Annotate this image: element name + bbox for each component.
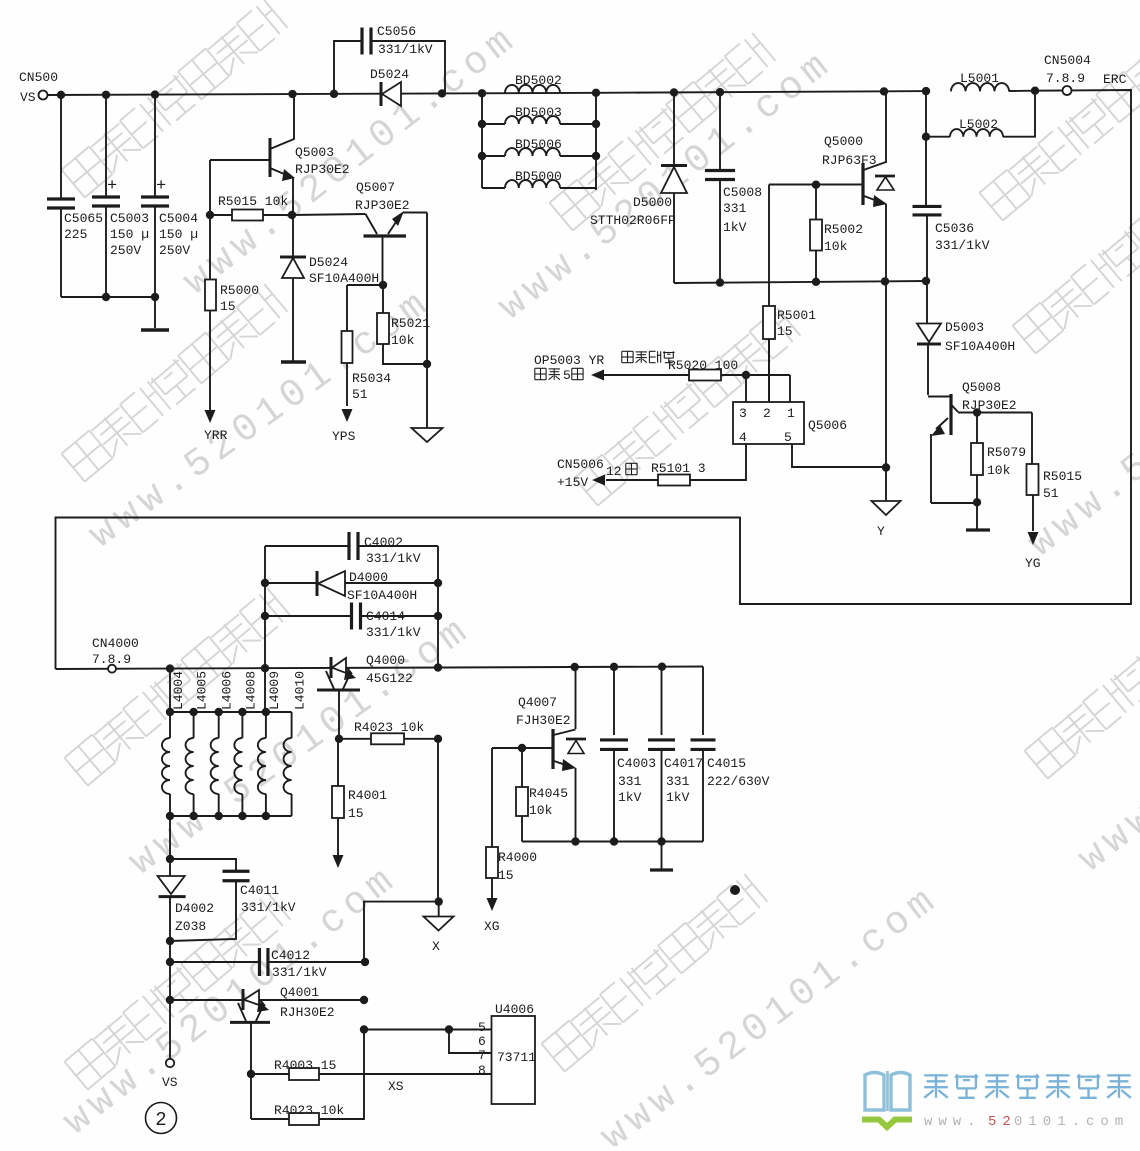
- svg-text:Q5007: Q5007: [356, 180, 395, 195]
- watermark band 4c: [1013, 156, 1140, 353]
- svg-text:51: 51: [352, 387, 368, 402]
- svg-text:7.8.9: 7.8.9: [1046, 71, 1085, 86]
- capacitor C5003: [92, 95, 149, 297]
- resistor R4023 bottom: [251, 1030, 364, 1125]
- svg-text:5: 5: [784, 430, 792, 445]
- svg-text:331/1kV: 331/1kV: [272, 965, 327, 980]
- svg-text:XS: XS: [388, 1079, 404, 1094]
- svg-text:331/1kV: 331/1kV: [378, 42, 433, 57]
- svg-text:CN4000: CN4000: [92, 636, 139, 651]
- arrow to CN5006: [592, 475, 605, 486]
- svg-text:1kV: 1kV: [723, 220, 747, 235]
- svg-text:R5002: R5002: [824, 222, 863, 237]
- svg-text:BD5006: BD5006: [515, 137, 562, 152]
- svg-text:Q4007: Q4007: [518, 695, 557, 710]
- ground Y: [872, 501, 901, 539]
- svg-text:C5056: C5056: [377, 24, 416, 39]
- wire Q5006 pin3: [745, 375, 747, 402]
- capacitor C5004: [141, 95, 198, 328]
- svg-text:D5024: D5024: [370, 67, 409, 82]
- svg-text:150 µ: 150 µ: [110, 227, 149, 242]
- svg-text:C5036: C5036: [935, 221, 974, 236]
- resistor R5021: [377, 285, 431, 368]
- resistor R4003: [247, 1058, 492, 1094]
- svg-text:L4004: L4004: [171, 671, 186, 710]
- svg-text:VS: VS: [20, 90, 36, 105]
- svg-text:CN5004: CN5004: [1044, 53, 1091, 68]
- wire Q5006 pin5: [792, 444, 886, 467]
- wire coil top bus: [166, 669, 292, 717]
- inductors L4004 L4005 L4006 L4008 L4009 L4010: [162, 671, 308, 816]
- transistor Q4000: [317, 653, 413, 739]
- svg-text:R5020 100: R5020 100: [668, 358, 738, 373]
- wire U4006 pin5: [360, 1025, 492, 1033]
- svg-text:L4008: L4008: [243, 671, 258, 710]
- svg-text:BD5003: BD5003: [515, 105, 562, 120]
- wire C4002 left column: [261, 546, 269, 672]
- inductor BD5000: [482, 169, 596, 188]
- svg-text:45G122: 45G122: [366, 671, 413, 686]
- node CN4000 terminal: [92, 636, 139, 673]
- resistor R5015: [206, 160, 296, 221]
- svg-text:222/630V: 222/630V: [707, 774, 770, 789]
- logo book icon: [862, 1071, 912, 1127]
- resistor R5002: [810, 185, 863, 282]
- svg-text:331/1kV: 331/1kV: [935, 238, 990, 253]
- watermark band 8: [175, 16, 526, 304]
- page number 2: [146, 1103, 177, 1134]
- svg-text:R5034: R5034: [352, 371, 391, 386]
- node CN5004 terminal: [1044, 53, 1127, 95]
- wire VS main bus: [47, 91, 1063, 96]
- watermark band 3: [65, 588, 291, 785]
- svg-text:331: 331: [723, 201, 747, 216]
- svg-text:SF10A400H: SF10A400H: [347, 588, 417, 603]
- svg-text:1kV: 1kV: [666, 790, 690, 805]
- svg-text:6: 6: [478, 1034, 486, 1049]
- resistor R5000: [204, 215, 259, 443]
- svg-text:15: 15: [348, 806, 364, 821]
- svg-text:331/1kV: 331/1kV: [366, 551, 421, 566]
- svg-text:C4014: C4014: [366, 609, 405, 624]
- watermark band 14: [1020, 278, 1140, 566]
- transistor Q4001: [166, 962, 368, 1074]
- ic U4006: [478, 1002, 536, 1104]
- svg-text:RJH30E2: RJH30E2: [280, 1005, 335, 1020]
- wire capacitor return: [61, 296, 155, 298]
- inductor BD5003: [478, 105, 600, 128]
- svg-text:C5008: C5008: [723, 185, 762, 200]
- svg-text:5: 5: [478, 1020, 486, 1035]
- diode D4000: [265, 570, 438, 603]
- svg-text:XG: XG: [484, 919, 500, 934]
- svg-text:Q4001: Q4001: [280, 985, 319, 1000]
- svg-text:+: +: [156, 177, 166, 196]
- svg-text:R5000: R5000: [220, 283, 259, 298]
- svg-text:CN500: CN500: [19, 70, 58, 85]
- svg-text:8: 8: [478, 1063, 486, 1078]
- svg-text:C4012: C4012: [271, 948, 310, 963]
- svg-text:250V: 250V: [110, 243, 141, 258]
- svg-text:331/1kV: 331/1kV: [241, 900, 296, 915]
- watermark band 10: [81, 280, 440, 558]
- svg-text:R4001: R4001: [348, 788, 387, 803]
- svg-text:10k: 10k: [391, 333, 415, 348]
- resistor R4000: [484, 748, 537, 934]
- svg-text:1: 1: [787, 406, 795, 421]
- svg-text:7: 7: [478, 1048, 486, 1063]
- svg-text:D5024: D5024: [309, 255, 348, 270]
- capacitor C4003: [600, 667, 656, 842]
- wire bottom rail upper section: [674, 277, 930, 287]
- ground under C4017: [650, 842, 673, 871]
- wire Q5006 pin2: [768, 339, 770, 402]
- diode D5003: [917, 281, 1015, 395]
- ground X: [424, 902, 454, 954]
- wire BD bank sides: [482, 93, 596, 190]
- wire gate line: [769, 181, 863, 189]
- watermark band 4: [575, 308, 801, 505]
- svg-text:RJP30E2: RJP30E2: [295, 162, 350, 177]
- svg-text:C4015: C4015: [707, 756, 746, 771]
- wire Q5006 pin1: [789, 375, 791, 402]
- svg-text:R5101 3: R5101 3: [651, 461, 706, 476]
- wire coil bottom bus: [166, 812, 292, 820]
- diode D5024 clamp: [280, 215, 379, 361]
- watermark band 4b: [550, 33, 776, 230]
- svg-text:3: 3: [739, 406, 747, 421]
- svg-text:VS: VS: [162, 1075, 178, 1090]
- svg-text:Q5008: Q5008: [962, 380, 1001, 395]
- capacitor C5008: [705, 88, 762, 282]
- svg-text:5: 5: [563, 368, 571, 383]
- stray dot: [730, 885, 740, 895]
- svg-text:+: +: [107, 177, 117, 196]
- svg-text:Z038: Z038: [175, 919, 206, 934]
- arrow to OP5003: [591, 370, 604, 381]
- transistor Q5000: [822, 87, 895, 281]
- wire cap bottom rail: [522, 837, 703, 845]
- resistor R5020: [604, 358, 790, 381]
- resistor R5101: [606, 444, 746, 486]
- inductor L5002: [922, 91, 1035, 141]
- ground under C5004: [141, 328, 169, 331]
- svg-text:SF10A400H: SF10A400H: [309, 271, 379, 286]
- svg-text:Q5003: Q5003: [295, 145, 334, 160]
- svg-text:L4009: L4009: [267, 671, 282, 710]
- ground under D5024: [281, 360, 306, 363]
- svg-text:1kV: 1kV: [618, 790, 642, 805]
- svg-text:U4006: U4006: [495, 1002, 534, 1017]
- svg-text:250V: 250V: [159, 243, 190, 258]
- capacitor C4014: [265, 603, 438, 641]
- svg-text:C5003: C5003: [110, 211, 149, 226]
- svg-text:RJP30E2: RJP30E2: [962, 398, 1017, 413]
- capacitor C5065: [47, 95, 103, 297]
- wire ERC loop: [56, 90, 1132, 669]
- svg-text:STTH02R06FP: STTH02R06FP: [590, 213, 676, 228]
- svg-text:C4002: C4002: [364, 535, 403, 550]
- svg-text:Y: Y: [877, 524, 885, 539]
- svg-text:R4045: R4045: [529, 786, 568, 801]
- inductor BD5006: [478, 137, 600, 160]
- svg-text:52: 52: [988, 1114, 1017, 1130]
- wire Q5007 collector to ground: [426, 213, 428, 429]
- optocoupler Q5006: [733, 402, 847, 445]
- diode D4002: [158, 859, 214, 941]
- watermark band 15: [1070, 593, 1140, 881]
- svg-text:YPS: YPS: [332, 429, 356, 444]
- capacitor C4011: [166, 859, 296, 945]
- resistor R5034: [332, 281, 391, 444]
- svg-text:R5015: R5015: [1043, 469, 1082, 484]
- inductor BD5002: [478, 73, 600, 97]
- watermark band 12: [55, 856, 406, 1144]
- watermark band 2: [62, 284, 288, 481]
- capacitor C5056: [330, 24, 446, 98]
- svg-text:C4003: C4003: [617, 756, 656, 771]
- resistor R4001: [332, 739, 387, 868]
- resistor R5001: [763, 185, 816, 403]
- svg-text:0101.com: 0101.com: [1014, 1114, 1129, 1130]
- svg-text:C5004: C5004: [159, 211, 198, 226]
- capacitor C5036: [913, 137, 990, 281]
- svg-text:SF10A400H: SF10A400H: [945, 339, 1015, 354]
- svg-text:RJP30E2: RJP30E2: [355, 198, 410, 213]
- svg-text:L4005: L4005: [195, 671, 210, 710]
- svg-text:15: 15: [777, 324, 793, 339]
- node VS bottom terminal: [162, 1000, 178, 1090]
- svg-text:331: 331: [618, 774, 642, 789]
- capacitor C4002: [265, 532, 438, 566]
- inductor L5001: [922, 71, 1039, 95]
- svg-text:YRR: YRR: [204, 428, 228, 443]
- svg-text:R5015 10k: R5015 10k: [218, 194, 288, 209]
- svg-text:YG: YG: [1025, 556, 1041, 571]
- svg-text:4: 4: [739, 430, 747, 445]
- resistor R4023 gate: [335, 720, 442, 744]
- svg-text:Q5000: Q5000: [824, 134, 863, 149]
- svg-text:R5001: R5001: [777, 308, 816, 323]
- resistor R5079: [966, 408, 1026, 530]
- svg-text:CN5006: CN5006: [557, 457, 604, 472]
- svg-text:D4000: D4000: [349, 570, 388, 585]
- svg-text:Q5006: Q5006: [808, 418, 847, 433]
- svg-text:12: 12: [606, 464, 622, 479]
- watermark band 1: [62, 0, 288, 197]
- svg-text:L5002: L5002: [959, 117, 998, 132]
- wire Q5000 emitter to ground Y: [882, 281, 890, 501]
- svg-text:D5003: D5003: [945, 320, 984, 335]
- svg-text:R4000: R4000: [498, 850, 537, 865]
- svg-text:15: 15: [498, 868, 514, 883]
- wire X node: [364, 739, 443, 962]
- watermark band 5: [542, 874, 768, 1071]
- svg-text:2: 2: [155, 1109, 166, 1131]
- svg-text:www.: www.: [924, 1114, 982, 1130]
- svg-text:L4010: L4010: [293, 671, 308, 710]
- svg-text:C4011: C4011: [240, 883, 279, 898]
- svg-text:R4023 10k: R4023 10k: [354, 720, 424, 735]
- capacitor C4012: [166, 941, 369, 980]
- svg-text:R4003 15: R4003 15: [274, 1058, 336, 1073]
- svg-text:RJP63F3: RJP63F3: [822, 153, 877, 168]
- wire coil bank down: [166, 816, 174, 863]
- watermark band 13: [593, 877, 948, 1151]
- svg-text:C5065: C5065: [64, 211, 103, 226]
- svg-text:BD5002: BD5002: [515, 73, 562, 88]
- svg-text:331/1kV: 331/1kV: [366, 625, 421, 640]
- logo site name: [924, 1074, 1131, 1098]
- svg-text:L5001: L5001: [960, 71, 999, 86]
- svg-text:73711: 73711: [497, 1050, 536, 1065]
- capacitor C4017: [648, 667, 703, 842]
- diode D5000: [590, 88, 687, 283]
- logo url: [924, 1114, 1129, 1130]
- resistor R5015 emitter: [1025, 413, 1082, 572]
- wire CN4000 rail: [56, 662, 704, 672]
- wire U4006 pin7: [449, 1030, 492, 1054]
- svg-text:150 µ: 150 µ: [159, 227, 198, 242]
- transistor Q5008: [928, 380, 1032, 503]
- svg-text:D4002: D4002: [175, 901, 214, 916]
- svg-text:10k: 10k: [824, 239, 848, 254]
- svg-text:D5000: D5000: [633, 195, 672, 210]
- resistor R4045: [516, 748, 568, 842]
- label OP5003 YR drive signal: [534, 351, 675, 383]
- transistor Q5007: [292, 180, 427, 285]
- svg-text:ERC: ERC: [1103, 72, 1127, 87]
- svg-text:Q4000: Q4000: [366, 653, 405, 668]
- diode D5024 on bus: [370, 67, 409, 106]
- svg-text:X: X: [432, 939, 440, 954]
- watermark band 6: [980, 23, 1140, 220]
- watermark band 11: [121, 607, 480, 885]
- transistor Q5003: [210, 94, 350, 215]
- svg-text:OP5003 YR: OP5003 YR: [534, 353, 604, 368]
- watermark band 7: [1025, 581, 1140, 778]
- wire C4002 right column: [434, 546, 442, 672]
- svg-text:FJH30E2: FJH30E2: [516, 713, 571, 728]
- svg-text:331: 331: [666, 774, 690, 789]
- svg-text:R4023 10k: R4023 10k: [274, 1103, 344, 1118]
- svg-text:225: 225: [64, 227, 87, 242]
- svg-text:R5079: R5079: [987, 445, 1026, 460]
- svg-text:15: 15: [220, 299, 236, 314]
- watermark band 4d: [65, 892, 291, 1089]
- svg-text:10k: 10k: [987, 463, 1011, 478]
- label CN5006 +15V: [557, 457, 637, 490]
- svg-text:51: 51: [1043, 486, 1059, 501]
- wire x265 column to rail: [264, 668, 266, 712]
- ground symbol near YPS: [412, 428, 443, 442]
- capacitor C4015: [691, 667, 770, 842]
- svg-text:L4006: L4006: [220, 671, 235, 710]
- junction dots bus left: [57, 90, 297, 301]
- svg-text:+15V: +15V: [557, 475, 588, 490]
- transistor Q4007: [516, 667, 586, 842]
- svg-text:BD5000: BD5000: [515, 169, 562, 184]
- watermark band 9: [490, 41, 841, 329]
- svg-text:10k: 10k: [529, 803, 553, 818]
- svg-text:C4017: C4017: [664, 756, 703, 771]
- svg-text:7.8.9: 7.8.9: [92, 652, 131, 667]
- svg-text:2: 2: [763, 406, 771, 421]
- svg-text:R5021: R5021: [391, 316, 430, 331]
- node CN500 VS terminal: [19, 70, 58, 105]
